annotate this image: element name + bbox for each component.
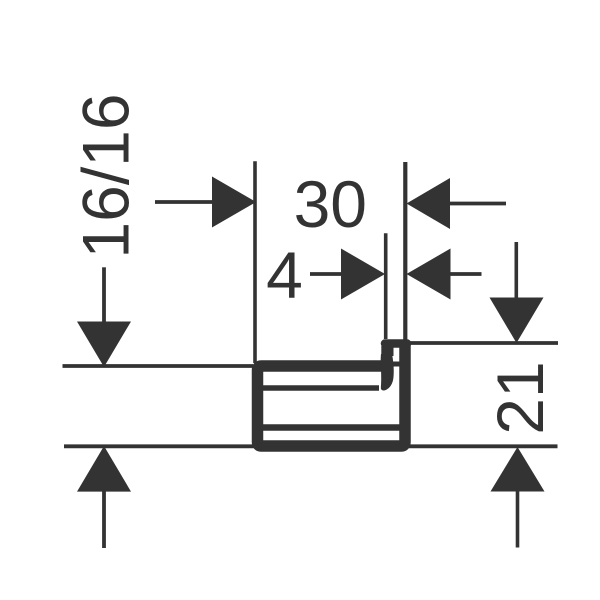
hook bridge (thinner top bar)	[385, 339, 407, 348]
dim 30: left tail	[155, 200, 212, 204]
profile inner line top	[263, 385, 379, 391]
dim 30: left-pointing arrowhead	[407, 178, 451, 229]
svg-text:4: 4	[266, 238, 303, 312]
dim 16/16: down arrowhead	[77, 322, 131, 368]
dim 16/16: up arrow tail	[102, 491, 106, 548]
extension line right top (y=343)	[410, 341, 559, 345]
extension line left top (y=366)	[63, 364, 254, 368]
svg-text:21: 21	[483, 361, 557, 434]
profile curved sealing lip tail	[381, 354, 394, 391]
vertical extension line x=385.7 (4 dim)	[384, 233, 388, 339]
dim 4: right tail	[451, 272, 482, 276]
extension line bottom (y=446.3)	[64, 444, 558, 448]
dim 30: right-pointing arrowhead	[212, 177, 256, 228]
svg-text:16/16: 16/16	[69, 93, 143, 258]
profile outer wall (thick)	[258, 345, 406, 446]
dim 21: down arrowhead	[490, 298, 544, 344]
profile inner line bottom	[263, 424, 400, 431]
dim 21: up arrowhead (bottom right)	[491, 447, 545, 492]
dim 4: left-pointing arrowhead	[407, 249, 451, 300]
dim 4: right-pointing arrowhead	[341, 249, 385, 300]
dim 21: top vertical tail	[514, 242, 518, 298]
dim 4: left tail	[310, 272, 341, 276]
dim 16/16: down arrow tail	[102, 267, 106, 322]
svg-text:30: 30	[294, 167, 367, 241]
left vertical extension line x=255	[253, 161, 257, 363]
dim 16/16: up arrowhead (bottom left)	[77, 446, 131, 492]
middle vertical extension line x=405.3	[403, 162, 407, 340]
dim 30: right tail	[450, 202, 506, 206]
dim 21: bottom vertical tail	[516, 491, 520, 548]
hook left leg	[381, 346, 393, 356]
profile hook bridge closure below slot	[389, 362, 401, 367]
